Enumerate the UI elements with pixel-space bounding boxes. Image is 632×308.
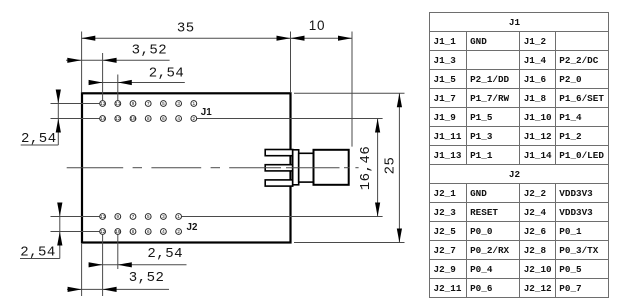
svg-text:10: 10 [115, 229, 121, 235]
svg-text:12: 12 [115, 116, 121, 122]
extension line pin column 1 top [102, 53, 104, 101]
J1 pin 10 [130, 116, 136, 123]
dimension 10 top [291, 18, 353, 41]
J1 pin 4 [176, 116, 182, 123]
dimension 2,54 left upper [21, 90, 61, 148]
SMA connector mid section [299, 153, 314, 182]
svg-text:35: 35 [177, 21, 195, 37]
dimension 3,52 top [66, 43, 170, 63]
SMA connector flange [293, 150, 299, 185]
J1 pin 11 [115, 101, 121, 108]
svg-text:1: 1 [192, 101, 195, 107]
extension line PCB bottom edge right [294, 242, 405, 244]
svg-text:3,52: 3,52 [132, 43, 168, 59]
extension line PCB left edge top [81, 32, 83, 93]
SMA connector prong top [265, 150, 293, 156]
connector J1 label [201, 107, 212, 118]
svg-text:2: 2 [177, 229, 180, 235]
J2 pin 1 [176, 214, 182, 221]
svg-text:2,54: 2,54 [149, 66, 185, 82]
svg-text:3: 3 [162, 214, 165, 220]
svg-text:12: 12 [100, 229, 106, 235]
J2 pin 5 [145, 214, 151, 221]
svg-text:2,54: 2,54 [20, 245, 56, 261]
J1 pin 9 [130, 101, 136, 108]
dimension 3,52 bottom [67, 270, 169, 292]
dimension 16,46 right [358, 119, 380, 217]
svg-text:3,52: 3,52 [129, 270, 165, 286]
extension line pin column 2 bottom [117, 235, 119, 270]
svg-text:6: 6 [162, 116, 165, 122]
svg-text:9: 9 [116, 214, 119, 220]
connector J2 label [187, 222, 198, 233]
extension line J2 row1 right [182, 216, 383, 218]
svg-text:6: 6 [147, 229, 150, 235]
svg-text:8: 8 [147, 116, 150, 122]
J2 pin 11 [100, 214, 106, 221]
svg-text:11: 11 [115, 101, 121, 107]
J1 pin 3 [176, 101, 182, 108]
svg-text:25: 25 [383, 157, 399, 175]
svg-text:2: 2 [192, 116, 195, 122]
extension line pin column 1 bottom [102, 235, 104, 297]
pin assignment table J1 / J2 [429, 12, 609, 298]
svg-text:4: 4 [162, 229, 165, 235]
center line dash through SMA body [286, 167, 359, 169]
svg-text:7: 7 [132, 214, 135, 220]
svg-text:2,54: 2,54 [147, 246, 183, 262]
J2 pin 9 [115, 214, 121, 221]
extension line pin column 2 top [117, 75, 119, 101]
svg-text:11: 11 [100, 214, 106, 220]
J1 pin 1 [191, 101, 197, 108]
SMA connector body [314, 150, 349, 185]
SMA connector prong middle [265, 165, 293, 171]
SMA connector prong bottom [265, 180, 293, 186]
svg-text:5: 5 [162, 101, 165, 107]
J2 pin 10 [115, 229, 121, 236]
extension line J2 row1 left [51, 216, 100, 218]
svg-text:J2: J2 [187, 222, 198, 233]
svg-text:7: 7 [147, 101, 150, 107]
svg-text:4: 4 [177, 116, 180, 122]
J1 pin 14 [100, 116, 106, 123]
svg-text:5: 5 [147, 214, 150, 220]
J1 pin 2 [191, 116, 197, 123]
svg-text:9: 9 [132, 101, 135, 107]
J2 pin 2 [176, 229, 182, 236]
extension line J1 row2 left [51, 118, 100, 120]
svg-text:8: 8 [132, 229, 135, 235]
center line [67, 167, 262, 169]
svg-text:2,54: 2,54 [21, 131, 57, 147]
extension line PCB right edge top [290, 32, 292, 93]
J2 pin 12 [100, 229, 106, 236]
dimension 35 top [81, 21, 290, 41]
J1 pin 13 [100, 101, 106, 108]
extension line PCB left edge bottom [81, 244, 83, 296]
PCB module outline [82, 93, 291, 242]
J2 pin 6 [145, 229, 151, 236]
svg-text:13: 13 [100, 101, 106, 107]
extension line J1 row1 left [51, 103, 100, 105]
J1 pin 8 [145, 116, 151, 123]
J1 pin 12 [115, 116, 121, 123]
J1 pin 7 [145, 101, 151, 108]
dimension 2,54 bottom [89, 246, 187, 268]
extension line J2 row2 left [51, 231, 100, 233]
extension line J1 row2 right [197, 118, 383, 120]
J2 pin 8 [130, 229, 136, 236]
dimension 25 right [383, 93, 403, 242]
svg-text:10: 10 [309, 18, 326, 33]
svg-text:14: 14 [100, 116, 106, 122]
svg-text:10: 10 [130, 116, 136, 122]
extension line PCB top edge right [294, 92, 405, 94]
dimension 2,54 left lower [20, 203, 62, 261]
svg-text:J1: J1 [201, 107, 212, 118]
center line dash through middle prong [262, 167, 281, 169]
J1 pin 5 [161, 101, 167, 108]
dimension 2,54 top [89, 66, 185, 86]
J2 pin 3 [161, 214, 167, 221]
extension line SMA right end [351, 32, 353, 147]
svg-text:1: 1 [177, 214, 180, 220]
J1 pin 6 [161, 116, 167, 123]
svg-text:16,46: 16,46 [358, 146, 374, 191]
svg-text:3: 3 [177, 101, 180, 107]
J2 pin 7 [130, 214, 136, 221]
J2 pin 4 [161, 229, 167, 236]
